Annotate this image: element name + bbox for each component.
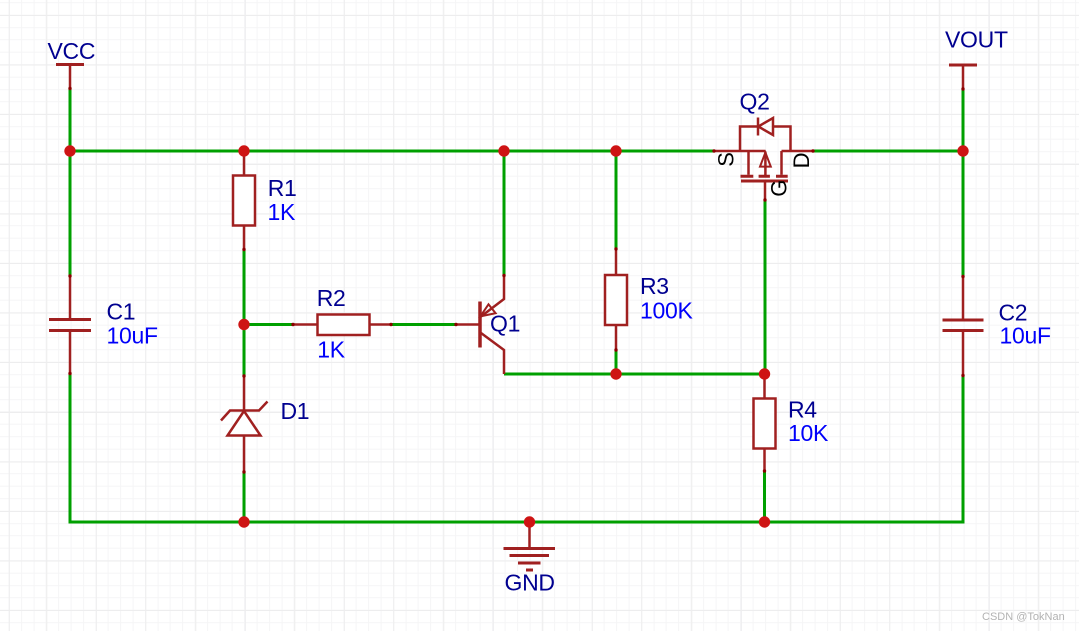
svg-text:CSDN @TokNan: CSDN @TokNan bbox=[982, 611, 1065, 623]
wire: top rail right (Q2 drain to VOUT) bbox=[813, 150, 965, 153]
svg-text:GND: GND bbox=[505, 569, 555, 595]
power port VOUT bbox=[949, 65, 977, 89]
wire: Q1 emitter up to top rail bbox=[503, 151, 506, 276]
svg-text:D1: D1 bbox=[281, 398, 310, 424]
svg-text:10K: 10K bbox=[788, 420, 829, 446]
pin end markers bbox=[68, 87, 964, 474]
svg-text:1K: 1K bbox=[317, 337, 345, 363]
junction node GND bbox=[524, 516, 535, 527]
junction node D1 bottom bbox=[238, 516, 249, 527]
capacitor C1 bbox=[49, 276, 91, 374]
wire: top rail down to R3 bbox=[615, 151, 618, 249]
svg-text:R2: R2 bbox=[317, 285, 346, 311]
wire: top rail left (VCC to Q2 source) bbox=[69, 150, 715, 153]
junction node VCC/top-rail bbox=[64, 145, 75, 156]
junction node R3 bottom bbox=[610, 368, 621, 379]
wire: R1 bottom to node bbox=[243, 250, 246, 327]
svg-text:10uF: 10uF bbox=[107, 323, 158, 349]
transistor Q2 (P-MOSFET) bbox=[714, 118, 813, 201]
junction node R4 bottom bbox=[759, 516, 770, 527]
svg-text:VOUT: VOUT bbox=[945, 26, 1008, 52]
junction node R1/R2/D1 bbox=[238, 319, 249, 330]
junction node gate/R4 bbox=[759, 368, 770, 379]
wire: R3 bottom to mid node bbox=[615, 350, 618, 374]
svg-text:C1: C1 bbox=[107, 299, 136, 325]
svg-text:G: G bbox=[767, 180, 792, 197]
ground symbol GND bbox=[504, 522, 556, 570]
resistor R3 bbox=[605, 249, 627, 350]
svg-text:100K: 100K bbox=[640, 297, 693, 323]
wire: VCC vertical down left rail bbox=[69, 88, 72, 277]
wire: VOUT vertical bbox=[962, 89, 965, 277]
svg-text:D: D bbox=[789, 153, 814, 169]
wire: Q1 collector row to R4 node bbox=[504, 373, 765, 376]
svg-text:10uF: 10uF bbox=[1000, 323, 1051, 349]
zener diode D1 bbox=[221, 376, 268, 472]
svg-text:R1: R1 bbox=[268, 175, 297, 201]
resistor R1 bbox=[233, 151, 255, 250]
svg-text:R3: R3 bbox=[640, 273, 669, 299]
svg-text:1K: 1K bbox=[268, 199, 296, 225]
wire: D1 bottom to bottom rail bbox=[243, 472, 246, 522]
transistor Q1 (PNP) bbox=[456, 276, 504, 375]
junction node VOUT bbox=[957, 145, 968, 156]
junction node R3 top bbox=[610, 145, 621, 156]
capacitor C2 bbox=[943, 277, 984, 376]
svg-text:S: S bbox=[714, 152, 739, 166]
svg-text:VCC: VCC bbox=[48, 38, 96, 64]
resistor R2 bbox=[293, 315, 391, 336]
junction node Q1 emitter bbox=[498, 145, 509, 156]
power port VCC bbox=[56, 65, 84, 90]
resistor R4 bbox=[754, 374, 776, 471]
wire: bottom rail with left and right risers bbox=[70, 374, 963, 523]
wire: node to R2 left bbox=[244, 323, 293, 326]
wire: R2 right to Q1 base bbox=[391, 323, 456, 326]
junction node R1 top bbox=[238, 145, 249, 156]
wire: R4 bottom to bottom rail bbox=[763, 471, 766, 522]
wire: Q2 gate down to R4 node bbox=[764, 200, 767, 374]
svg-text:R4: R4 bbox=[788, 396, 817, 422]
svg-text:Q2: Q2 bbox=[740, 89, 770, 115]
svg-text:Q1: Q1 bbox=[490, 311, 520, 337]
wire: node down to D1 bbox=[243, 325, 246, 377]
